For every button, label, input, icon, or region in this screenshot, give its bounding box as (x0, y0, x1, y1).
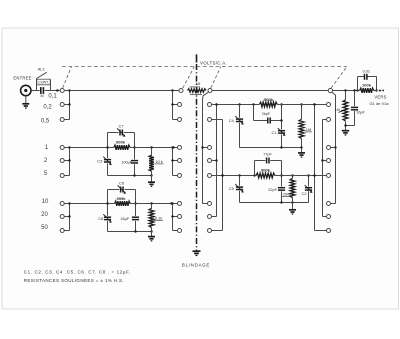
wire block3 out to right contacts (277, 103, 326, 105)
capacitor 0,01 output bridge (358, 69, 377, 90)
dashed link middle deck right (211, 67, 221, 88)
potentiometer 1M output (335, 91, 348, 131)
series resistor 1M between wipers (188, 82, 207, 94)
ground block1 (148, 181, 155, 183)
svg-text:0,01: 0,01 (363, 69, 370, 73)
resistor 999k block2 (115, 196, 131, 206)
dashed link right deck (331, 67, 347, 88)
svg-text:10 k: 10 k (155, 159, 163, 164)
svg-text:20: 20 (41, 212, 48, 218)
svg-text:50: 50 (41, 225, 48, 231)
left outer contacts group3 (60, 202, 71, 233)
svg-text:250k: 250k (283, 192, 291, 196)
ground block2 (148, 236, 155, 238)
wire group3 line to block2 (70, 203, 115, 205)
svg-text:ALT.: ALT. (38, 66, 46, 71)
switch deck S1b right wiper contact (208, 89, 212, 93)
wire jack to C input (31, 90, 40, 92)
input connector ENTREE (21, 85, 31, 95)
capacitor C2 block4 (305, 174, 313, 202)
svg-text:BLINDAGE: BLINDAGE (182, 262, 210, 267)
trimmer capacitor C6 block2 top (108, 185, 136, 194)
ALT/CONT coupling switch (37, 72, 51, 90)
block1 left vertical with trimmer C3 (103, 133, 112, 176)
block2 bottom rail (108, 230, 153, 232)
svg-text:999k: 999k (117, 196, 127, 201)
block4 bottom rail (240, 201, 309, 203)
wire block1 out to contacts (130, 146, 177, 148)
capacitor 2kpF block3 (254, 105, 282, 124)
svg-text:C1: C1 (271, 130, 277, 135)
switch deck S1b left wiper contact (179, 89, 183, 93)
wire cap to switch contact (45, 90, 60, 92)
wire wiper to bus (64, 90, 69, 92)
svg-text:VOLTS/C.A.: VOLTS/C.A. (200, 60, 227, 65)
svg-text:1M: 1M (335, 108, 340, 112)
wire main signal line (70, 90, 179, 92)
svg-text:C5: C5 (229, 186, 235, 191)
svg-text:CONT.: CONT. (38, 81, 49, 85)
svg-text:10µF: 10µF (356, 110, 365, 114)
stubs right middle (201, 105, 222, 231)
ground block3 (298, 152, 305, 154)
dashed mechanical linkage line (62, 66, 347, 68)
right middle rotor wire (203, 92, 209, 203)
right outer contacts (327, 103, 331, 233)
block2 left vertical with trimmer C8 (103, 190, 112, 232)
resistor 500k block3 (259, 97, 277, 107)
bus right middle 3 (221, 120, 223, 231)
resistor 900k block4 (256, 167, 275, 178)
resistor 10k block1 shunt (149, 148, 163, 182)
trimmer capacitor C7 block1 top (108, 128, 135, 137)
bus right middle 2 (215, 103, 217, 216)
svg-text:2kpF: 2kpF (262, 112, 271, 116)
bus right outer 2 (321, 120, 323, 217)
svg-text:C8: C8 (98, 216, 104, 221)
svg-text:0,1: 0,1 (48, 94, 57, 100)
capacitor C1 block3 (278, 103, 286, 147)
svg-text:16µF: 16µF (120, 217, 129, 221)
resistor 10,1k block2 shunt (149, 204, 163, 237)
svg-text:G1 de V1a: G1 de V1a (369, 101, 389, 106)
svg-text:VERS: VERS (374, 94, 386, 99)
resistor 900k block1 (114, 139, 130, 150)
switch deck S1a wiper contact (60, 89, 64, 93)
ground at input connector (22, 96, 29, 108)
left outer contacts group1 (60, 89, 71, 121)
block3 bottom rail (240, 146, 302, 148)
svg-text:500k: 500k (264, 97, 274, 102)
stubs right outer (315, 120, 336, 231)
wire group2 line to block1 (70, 147, 114, 149)
svg-text:C2: C2 (301, 191, 307, 196)
bus right outer 1 (313, 103, 315, 230)
wire main line wiper to right (212, 90, 328, 92)
svg-text:100k: 100k (362, 83, 372, 88)
left middle contacts group C (171, 202, 181, 233)
shield line blindage (196, 54, 198, 250)
output arrow to VERS G1 (374, 89, 384, 91)
wire row r2 to block3 (212, 103, 260, 105)
svg-text:0,2: 0,2 (43, 105, 52, 111)
left middle contacts group B (171, 146, 181, 178)
dashed link left deck (63, 67, 72, 88)
dashed link middle deck left (183, 67, 195, 88)
capacitor 10uF output (344, 91, 365, 127)
block1 middle capacitor 100uF (121, 133, 138, 176)
switch deck S1c wiper contact (328, 88, 332, 92)
resistor 250k block4 shunt (282, 174, 295, 209)
left middle contacts group A (171, 91, 181, 122)
wire switch to output network (333, 89, 360, 91)
block1 bottom rail (108, 174, 153, 176)
capacitor 22pF block4 (268, 174, 285, 202)
right middle contacts col (208, 103, 212, 233)
wire row r6 to block4 (212, 174, 256, 176)
svg-text:C4: C4 (229, 118, 235, 123)
svg-text:C3: C3 (97, 158, 103, 163)
svg-text:C1. C2. C3. C4 .C5. C6. C7. C8: C1. C2. C3. C4 .C5. C6. C7. C8 . = 12µF. (24, 269, 131, 274)
node junction to middle deck bus (171, 89, 173, 91)
ground blindage (193, 250, 201, 252)
svg-text:900k: 900k (116, 139, 126, 144)
trimmer capacitor C5 block4 (235, 176, 244, 203)
svg-text:900k: 900k (261, 167, 271, 172)
svg-text:RESISTANCES SOULIGNEES = ± 1%: RESISTANCES SOULIGNEES = ± 1% H.S. (24, 278, 124, 283)
ground block4 (289, 209, 296, 211)
svg-text:C7: C7 (118, 123, 124, 128)
wire block2 out to contacts (130, 202, 177, 204)
svg-text:10,1k: 10,1k (153, 215, 163, 220)
svg-text:50: 50 (41, 94, 45, 98)
svg-text:C6: C6 (119, 181, 125, 186)
resistor 100k output (360, 83, 374, 93)
svg-text:0,5: 0,5 (41, 119, 50, 125)
wire block4 out to right contacts (275, 174, 327, 176)
trimmer capacitor C4 block3 (235, 105, 244, 148)
capacitor 77pF block4 top (255, 153, 282, 176)
svg-text:77pF: 77pF (263, 153, 272, 157)
input coupling capacitor (41, 87, 45, 98)
left outer contacts group2 (60, 146, 71, 178)
rotor wire right deck (332, 92, 337, 203)
ground output (342, 130, 349, 132)
resistor 1M block3 shunt (299, 103, 312, 152)
block2 middle capacitor 16uF (120, 190, 139, 232)
svg-text:1M: 1M (306, 127, 312, 132)
svg-text:22pF: 22pF (268, 188, 277, 192)
svg-text:ENTREE: ENTREE (13, 75, 31, 80)
svg-text:10: 10 (42, 199, 49, 205)
svg-text:100µF: 100µF (121, 160, 133, 164)
